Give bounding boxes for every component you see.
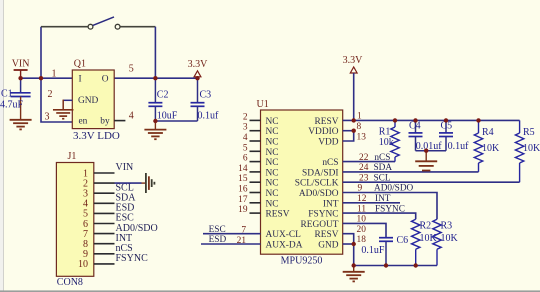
svg-text:nCS: nCS: [374, 153, 390, 163]
svg-text:VIN: VIN: [12, 59, 30, 70]
ground under C2: [154, 121, 156, 130]
ground under C4/C5: [425, 151, 427, 162]
wire pin20 to pin18: [343, 234, 354, 244]
svg-text:R2: R2: [420, 221, 432, 232]
svg-text:3: 3: [45, 112, 50, 123]
svg-text:16: 16: [238, 185, 248, 195]
junction ground rail left: [352, 263, 356, 267]
wire pin18 GND: [343, 243, 354, 245]
resistor R3: [433, 219, 459, 265]
wire nCS net: [343, 161, 395, 163]
svg-text:1: 1: [52, 69, 57, 80]
wire AD0/SDO net: [343, 193, 437, 220]
svg-text:nCS: nCS: [322, 158, 338, 168]
svg-text:10K: 10K: [441, 233, 459, 244]
svg-text:2: 2: [48, 89, 53, 100]
svg-text:NC: NC: [266, 158, 279, 168]
svg-text:ESD: ESD: [209, 235, 227, 245]
bottom window strip: [0, 290, 540, 292]
svg-text:INT: INT: [375, 194, 391, 204]
resistor R4: [474, 120, 500, 171]
wire C4-C5 bottoms: [416, 150, 447, 152]
connector J1 box: [56, 151, 93, 288]
switch SW1: [88, 17, 120, 29]
svg-text:8: 8: [357, 122, 362, 132]
svg-text:14: 14: [238, 164, 248, 174]
svg-text:ESC: ESC: [209, 225, 226, 235]
svg-text:2: 2: [243, 112, 248, 122]
junction 3.3V rail / C3: [195, 76, 199, 80]
svg-text:NC: NC: [266, 138, 279, 148]
svg-text:C6: C6: [397, 235, 409, 246]
Q1 pin2 gnd elbow: [63, 99, 72, 101]
svg-text:R5: R5: [523, 127, 535, 138]
svg-text:15: 15: [238, 174, 248, 184]
svg-text:10K: 10K: [482, 143, 500, 154]
svg-text:VDDIO: VDDIO: [308, 127, 338, 137]
resistor R2: [412, 219, 438, 265]
svg-text:19: 19: [238, 205, 248, 215]
wire switch top right: [120, 26, 155, 28]
svg-text:NC: NC: [266, 199, 279, 209]
VIN power port: [12, 59, 30, 79]
svg-text:5: 5: [243, 143, 248, 153]
svg-text:3: 3: [243, 123, 248, 133]
left window strip: [0, 0, 4, 292]
wire C2-C3 bottoms: [155, 120, 197, 122]
wire ESC to AUX-CL pin7: [203, 233, 261, 235]
svg-text:C3: C3: [200, 90, 212, 101]
U1 right pin names: [295, 117, 339, 251]
svg-text:MPU9250: MPU9250: [281, 255, 323, 266]
Q1 pin4 stub: [114, 120, 125, 122]
svg-text:FSYNC: FSYNC: [375, 204, 405, 214]
svg-text:10uF: 10uF: [157, 111, 178, 122]
ground at Q1 pin2: [53, 110, 73, 119]
capacitor C3: [191, 78, 220, 121]
svg-text:SCL/SCLK: SCL/SCLK: [295, 179, 339, 189]
svg-text:4: 4: [129, 111, 134, 122]
earth ground at J1 pin2: [146, 173, 155, 193]
wire vertical en riser x41: [41, 27, 72, 122]
capacitor C1: [0, 78, 31, 120]
resistor R1: [379, 120, 399, 161]
svg-text:NC: NC: [266, 189, 279, 199]
svg-text:4: 4: [243, 133, 248, 143]
svg-text:10K: 10K: [523, 143, 540, 154]
svg-text:NC: NC: [266, 117, 279, 127]
svg-text:en: en: [79, 117, 88, 127]
svg-text:by: by: [100, 117, 110, 127]
svg-text:10k: 10k: [379, 137, 394, 148]
capacitor C2: [148, 78, 177, 121]
junction C4 top: [413, 118, 417, 122]
junction R1 top: [393, 118, 397, 122]
svg-text:R4: R4: [482, 127, 494, 138]
svg-text:U1: U1: [257, 99, 269, 110]
svg-text:R3: R3: [441, 221, 453, 232]
svg-text:RESV: RESV: [266, 210, 290, 220]
svg-text:AD0/SDO: AD0/SDO: [374, 184, 414, 194]
resistor R5: [515, 120, 540, 182]
svg-text:3.3V: 3.3V: [188, 59, 209, 70]
wire FSYNC net: [343, 213, 416, 219]
svg-text:SDA: SDA: [374, 163, 393, 173]
svg-text:13: 13: [357, 133, 367, 143]
svg-text:SCL: SCL: [374, 173, 391, 183]
wire bottom gnd rail: [354, 265, 437, 267]
J1 pin stub wires 1-10: [94, 173, 115, 264]
wire ESD to AUX-DA pin21: [201, 243, 261, 245]
junction R4 top: [476, 118, 480, 122]
U1 left pin numbers: [237, 112, 248, 246]
svg-text:0.1uf: 0.1uf: [198, 111, 220, 122]
svg-text:4.7uF: 4.7uF: [0, 99, 24, 110]
junction U1 pin1 / 3.3V: [352, 118, 356, 122]
capacitor C6: [361, 235, 408, 266]
junction VIN/C1: [18, 76, 22, 80]
svg-text:SDA/SDI: SDA/SDI: [302, 168, 338, 178]
capacitor C5: [439, 120, 469, 152]
svg-text:GND: GND: [318, 241, 339, 251]
ground under C1: [10, 120, 32, 130]
svg-text:R1: R1: [379, 127, 391, 138]
junction C5 top: [444, 118, 448, 122]
svg-text:20: 20: [357, 225, 367, 235]
wire Q1 pin5 rail to 3.3V: [114, 77, 197, 79]
ic U1 box: [257, 99, 343, 266]
J1 pin numbers 1-10: [78, 168, 88, 270]
svg-text:5: 5: [129, 64, 134, 75]
svg-text:VDD: VDD: [318, 138, 339, 148]
junction R2 bottom: [414, 263, 418, 267]
svg-text:GND: GND: [78, 96, 99, 106]
U1 right pin numbers: [357, 112, 369, 246]
wire switch drop to output rail: [154, 27, 156, 78]
junction U1 pin8: [352, 129, 356, 133]
wire pin1/3.3V rail: [343, 119, 520, 121]
svg-text:RESV: RESV: [315, 230, 339, 240]
power 3.3V port no.2: [343, 55, 364, 120]
svg-text:AUX-DA: AUX-DA: [266, 241, 303, 251]
svg-text:17: 17: [238, 195, 248, 205]
svg-text:0.1uf: 0.1uf: [448, 141, 470, 152]
junction C6 bottom: [384, 263, 388, 267]
U1 left pin names: [266, 117, 303, 251]
svg-text:Q1: Q1: [74, 58, 86, 69]
wire VIN rail to Q1 pin1: [21, 77, 73, 79]
svg-text:C1: C1: [1, 88, 13, 99]
wire INT net: [343, 202, 400, 204]
ground under U1: [353, 266, 355, 272]
svg-text:3.3V: 3.3V: [343, 55, 364, 66]
svg-text:INT: INT: [323, 199, 339, 209]
svg-text:FSYNC: FSYNC: [116, 253, 149, 264]
junction C4/C5 ground: [424, 149, 428, 153]
svg-text:18: 18: [357, 235, 367, 245]
wire pin8 stub: [343, 130, 354, 132]
svg-text:NC: NC: [266, 179, 279, 189]
junction U1 pin18/pin20: [352, 242, 356, 246]
wire SCL net: [343, 181, 520, 183]
junction C2 bottom / ground: [153, 119, 157, 123]
svg-text:3.3V LDO: 3.3V LDO: [73, 130, 120, 142]
svg-text:RESV: RESV: [315, 117, 339, 127]
svg-text:NC: NC: [266, 148, 279, 158]
svg-text:AD0/SDO: AD0/SDO: [299, 189, 339, 199]
svg-text:REGOUT: REGOUT: [300, 220, 338, 230]
wire J1 pin2 to earth: [115, 182, 142, 184]
wire REGOUT to C6: [343, 223, 386, 237]
svg-text:AUX-CL: AUX-CL: [266, 230, 302, 240]
capacitor C4: [409, 120, 443, 152]
wire pin13 stub: [343, 131, 354, 141]
svg-text:I: I: [79, 75, 82, 85]
wire SDA net: [343, 171, 479, 173]
svg-text:CON8: CON8: [57, 277, 83, 288]
svg-text:NC: NC: [266, 127, 279, 137]
svg-text:0.1uF: 0.1uF: [361, 245, 385, 256]
svg-text:NC: NC: [266, 168, 279, 178]
svg-text:VIN: VIN: [116, 162, 134, 173]
junction 3.3V rail / switch / C2: [153, 76, 157, 80]
power 3.3V port no.1: [188, 59, 209, 78]
regulator U Q1 box: [72, 58, 120, 142]
svg-text:J1: J1: [68, 151, 77, 162]
svg-text:10: 10: [78, 259, 88, 270]
junction VIN rail / switch riser: [39, 76, 43, 80]
svg-text:C2: C2: [157, 90, 169, 101]
svg-text:O: O: [102, 75, 109, 85]
U1 left pin stubs: [250, 120, 261, 213]
svg-text:6: 6: [243, 154, 248, 164]
wire switch top left: [41, 26, 88, 28]
svg-text:FSYNC: FSYNC: [308, 210, 338, 220]
